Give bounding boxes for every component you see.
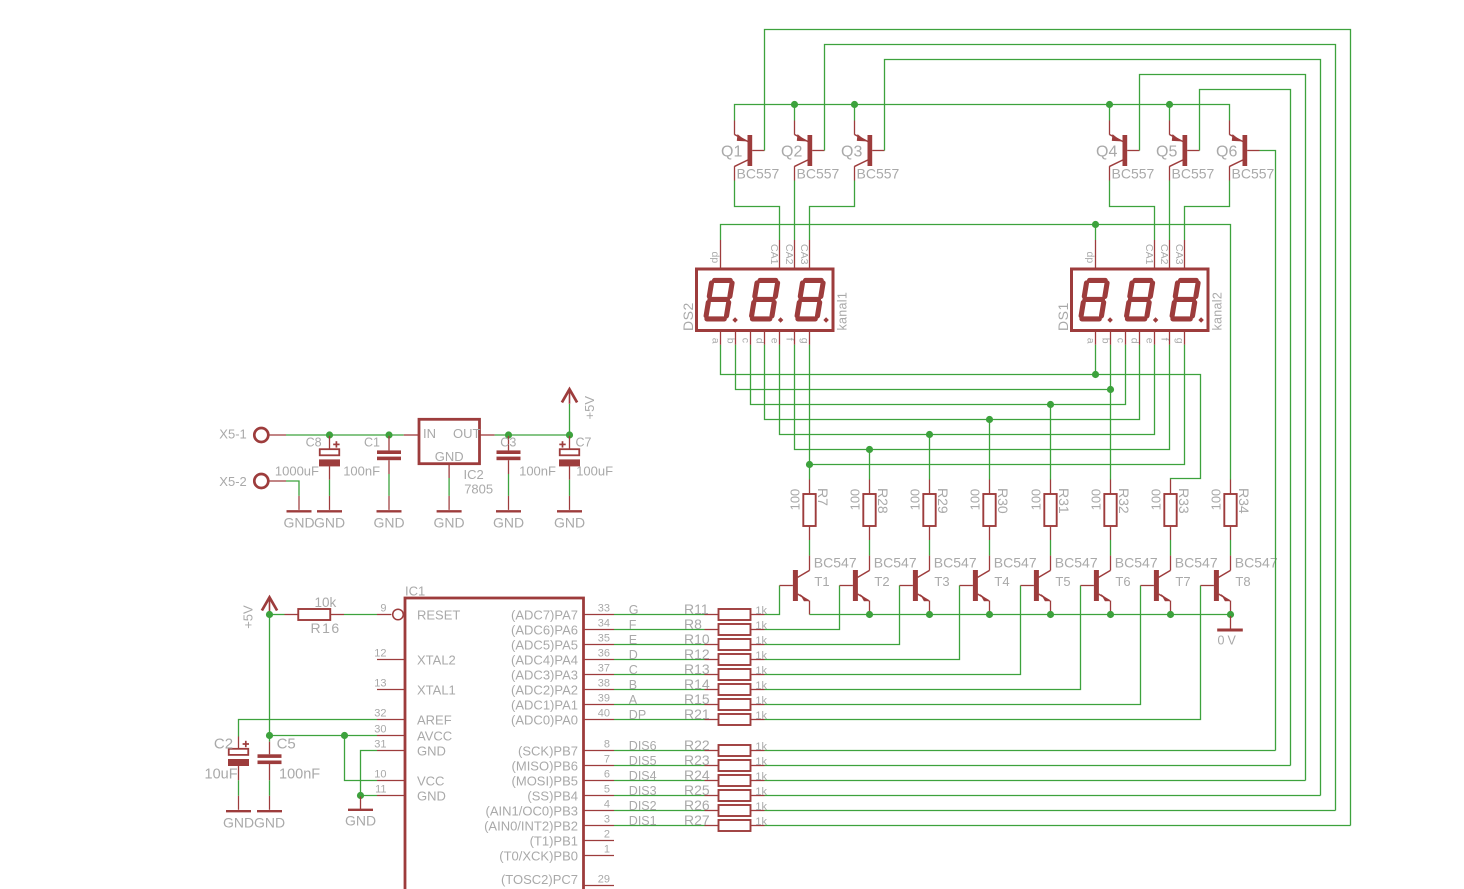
wire Q2 base to DIS2 vertical [825,45,1336,811]
svg-text:(MISO)PB6: (MISO)PB6 [512,759,578,774]
wire net e drop to resistor [929,435,931,480]
ground under IC1 GND pins [345,797,376,829]
resistor R14 1k [684,676,768,695]
svg-text:e: e [1144,338,1156,344]
junction Q emitter on +5V rail [791,101,798,108]
pin 36 (ADC4)PA4 [511,648,614,668]
svg-text:6: 6 [604,769,610,781]
svg-text:F: F [629,618,637,632]
svg-text:(ADC0)PA0: (ADC0)PA0 [511,713,578,728]
junction net dp at DS1 [1092,221,1099,228]
resistor R22 1k [684,737,768,756]
svg-text:R8: R8 [684,616,702,632]
pin 12 XTAL2 [374,648,456,668]
junction T2 emitter [866,611,873,618]
transistor T7 BC547 [1141,555,1218,615]
svg-text:RESET: RESET [417,608,460,623]
pin 37 (ADC3)PA3 [511,663,614,683]
pin 30 AVCC [374,724,452,744]
svg-text:Q5: Q5 [1156,144,1177,161]
svg-text:+5V: +5V [240,605,255,629]
svg-text:1k: 1k [755,801,767,813]
svg-text:R10: R10 [684,631,710,647]
+5V supply symbol near R16 [240,597,277,629]
resistor R8 1k [684,616,768,635]
DS1 pin f [1159,331,1171,345]
junction GND pin 11 [357,792,364,799]
+5V supply symbol at regulator output [562,389,597,419]
svg-text:100nF: 100nF [279,766,320,782]
wire +5V to RESET node [269,612,271,615]
ground under X5-2 [283,496,314,531]
svg-text:R33: R33 [1176,488,1192,514]
svg-text:dp: dp [1084,252,1096,264]
transistor Q1 BC557 [721,121,780,182]
wire DIS5 row [765,765,1291,767]
junction net g [806,461,813,468]
DS2 pin dp [709,240,721,269]
svg-text:(TOSC2)PC7: (TOSC2)PC7 [501,872,578,887]
svg-text:b: b [1100,338,1112,344]
resistor R10 1k [684,631,768,650]
svg-text:R26: R26 [684,797,710,813]
svg-text:Q2: Q2 [781,144,802,161]
wire net e: DS2-e to DS1-e [780,345,1155,435]
svg-text:C7: C7 [576,436,592,450]
resistor R33 100 [1148,480,1192,541]
svg-text:12: 12 [374,648,386,660]
svg-text:35: 35 [598,633,610,645]
0V supply symbol [1217,616,1243,648]
wire D to T4 base [765,586,960,660]
resistor R7 100 [787,480,831,541]
connector X5-2 [219,474,286,489]
resistor R34 100 [1208,480,1252,541]
transistor T6 BC547 [1081,555,1158,615]
svg-text:R30: R30 [995,488,1011,514]
capacitor C2 10uF [205,736,250,796]
svg-text:R29: R29 [935,488,951,514]
junction net f [866,446,873,453]
wire E from IC1 to R10 [614,644,705,646]
svg-text:DP: DP [629,708,646,722]
svg-text:DIS4: DIS4 [629,769,657,783]
svg-text:BC557: BC557 [1112,166,1155,182]
svg-text:BC547: BC547 [1055,555,1098,571]
DS1 pin c [1115,331,1127,345]
svg-text:30: 30 [374,724,386,736]
svg-text:100: 100 [787,489,802,511]
+5V rail across Q emitters [735,105,1230,121]
svg-text:dp: dp [709,252,721,264]
DS2 pin f [784,331,796,345]
svg-text:(ADC3)PA3: (ADC3)PA3 [511,668,578,683]
svg-text:10: 10 [374,769,386,781]
svg-text:GND: GND [434,514,465,530]
wire GND pin 11 [361,795,378,797]
wire Q emitter drop [854,105,856,121]
wire R29 to T3 collector [929,540,931,556]
DS2 pin d [754,331,766,345]
svg-text:a: a [1085,338,1097,344]
svg-text:d: d [1129,338,1141,344]
svg-text:D: D [629,648,638,662]
svg-text:IC2: IC2 [464,467,484,482]
wire Q3 collector to DS2 CA3 [810,181,855,241]
DS2 pin a [710,331,722,345]
wire Q4 base to DIS4 vertical [1140,75,1306,781]
junction net b at DS1-b [1107,386,1114,393]
resistor R27 1k [684,812,768,831]
svg-text:100: 100 [847,489,862,511]
resistor R32 100 [1088,480,1132,541]
junction VCC branch [341,732,348,739]
svg-text:GND: GND [223,814,254,830]
wire to +5V arrow [569,404,571,435]
wire B to T6 base [765,586,1081,690]
pin 38 (ADC2)PA2 [511,678,614,698]
svg-text:DIS2: DIS2 [629,799,657,813]
emitter rail to 0V [810,614,1231,616]
svg-text:34: 34 [598,618,610,630]
wire C to T5 base [765,586,1021,675]
wire net b: DS2-b to row [736,345,1111,390]
wire IC2 OUT to +5V [495,434,570,436]
junction C3 [505,431,512,438]
svg-text:T5: T5 [1055,574,1070,589]
svg-text:B: B [629,678,637,692]
svg-text:BC547: BC547 [1235,555,1278,571]
junction T8 emitter [1227,611,1234,618]
svg-text:DIS3: DIS3 [629,784,657,798]
svg-text:100nF: 100nF [343,464,380,479]
svg-text:7: 7 [604,754,610,766]
wire Q1 collector to DS2 CA1 [735,181,780,241]
svg-text:OUT: OUT [453,426,481,441]
wire net g: DS2-g straight down to R7 [809,345,811,480]
svg-text:f: f [1159,338,1171,341]
svg-text:1k: 1k [755,816,767,828]
ground under C5 [254,796,285,831]
pin 29 (TOSC2)PC7 [501,872,614,887]
wire GND pin 31 [361,751,378,796]
svg-text:BC547: BC547 [994,555,1037,571]
wire R30 to T4 collector [989,540,991,556]
pin 9 RESET with bubble [377,603,460,623]
svg-text:R14: R14 [684,676,710,692]
wire net d drop to resistor [989,420,991,480]
svg-text:X5-1: X5-1 [219,427,246,442]
svg-text:C8: C8 [306,436,322,450]
transistor Q4 BC557 [1096,121,1155,182]
ground under C8 [314,496,345,531]
svg-text:R27: R27 [684,812,710,828]
svg-text:CA1: CA1 [768,244,780,265]
svg-text:IN: IN [423,426,436,441]
resistor R28 100 [847,480,891,541]
svg-text:100: 100 [1208,489,1223,511]
wire VCC branch [345,736,378,781]
svg-text:C: C [629,663,638,677]
wire net a: DS2-a to row, detour to R33 [721,345,1201,480]
svg-text:C3: C3 [500,436,516,450]
svg-text:11: 11 [375,784,386,796]
svg-text:R11: R11 [684,601,709,617]
svg-text:(ADC1)PA1: (ADC1)PA1 [511,698,578,713]
svg-text:DIS5: DIS5 [629,754,657,768]
svg-text:kanal2: kanal2 [1210,292,1224,331]
DS1 digit 2 [1127,280,1153,319]
junction net d [986,416,993,423]
DS1 pin CA2 [1158,240,1170,269]
DS2 pin e [769,331,781,345]
transistor T5 BC547 [1021,555,1098,615]
svg-text:CA2: CA2 [1158,244,1170,265]
wire DIS2 row [765,810,1336,812]
wire R32 to T6 collector [1110,540,1112,556]
svg-text:39: 39 [598,693,610,705]
svg-text:0V: 0V [1218,634,1239,648]
svg-text:1k: 1k [755,635,767,647]
display DS2 box [680,269,850,331]
svg-text:(ADC6)PA6: (ADC6)PA6 [511,623,578,638]
svg-text:G: G [629,603,639,617]
junction C7 [566,431,573,438]
DS2 pin CA3 [798,240,810,269]
pin 34 (ADC6)PA6 [511,618,614,638]
wire R16 to RESET pin [344,614,377,616]
svg-text:29: 29 [598,874,610,886]
svg-text:b: b [725,338,737,344]
junction Q emitter on +5V rail [1166,101,1173,108]
svg-text:DS2: DS2 [680,302,696,331]
wire net c drop to resistor [1050,405,1052,480]
svg-text:1k: 1k [755,665,767,677]
pin 31 GND [374,739,446,759]
svg-text:1k: 1k [755,650,767,662]
svg-text:BC557: BC557 [857,166,900,182]
wire net f: DS2-f to DS1-f [795,345,1170,450]
svg-text:32: 32 [374,708,386,720]
svg-text:GND: GND [417,744,446,759]
svg-text:GND: GND [554,514,585,530]
wire net g row to DS1-g [810,345,1185,465]
svg-text:Q3: Q3 [841,144,862,161]
svg-text:GND: GND [417,789,446,804]
resistor R11 1k [684,601,768,620]
resistor R24 1k [684,767,768,786]
capacitor C7 100uF [559,436,613,496]
wire Q1 base to DIS1 vertical [765,30,1351,826]
svg-text:100nF: 100nF [519,464,556,479]
wire C from IC1 to R13 [614,674,705,676]
pin 10 VCC [374,769,444,789]
wire Q6 base to DIS6 vertical [1260,151,1276,751]
wire DP to T8 base [765,586,1201,720]
svg-text:31: 31 [374,739,386,751]
transistor T1 BC547 [780,555,857,615]
svg-text:R34: R34 [1236,488,1252,514]
DS2 pin g [799,331,811,345]
svg-text:A: A [629,693,638,707]
DS2 digit 1 [706,280,732,319]
svg-text:4: 4 [604,799,610,811]
svg-text:IC1: IC1 [405,584,425,599]
svg-text:1k: 1k [755,771,767,783]
DS1 pin CA3 [1173,240,1185,269]
DS1 pin b [1100,331,1112,345]
svg-text:40: 40 [598,708,610,720]
resistor R12 1k [684,646,768,665]
svg-text:Q4: Q4 [1096,144,1117,161]
svg-text:AREF: AREF [417,713,452,728]
wire DIS3 row [765,795,1321,797]
junction T3 emitter [926,611,933,618]
DS1 digit 1 [1081,280,1107,319]
resistor R25 1k [684,782,768,801]
svg-text:BC557: BC557 [797,166,840,182]
svg-text:R31: R31 [1056,488,1072,514]
svg-text:100: 100 [967,489,982,511]
svg-text:1k: 1k [755,605,767,617]
transistor T4 BC547 [960,555,1037,615]
junction net e [926,431,933,438]
svg-text:R24: R24 [684,767,710,783]
wire Q2 collector to DS2 CA2 [794,181,796,241]
wire G from IC1 to R11 [614,614,705,616]
junction net a at DS1-a [1092,371,1099,378]
svg-text:R32: R32 [1116,488,1132,514]
svg-text:2: 2 [604,829,610,841]
svg-text:R28: R28 [875,488,891,514]
resistor R15 1k [684,691,768,710]
svg-text:3: 3 [604,814,610,826]
resistor R23 1k [684,752,768,771]
svg-text:E: E [629,633,637,647]
resistor R16 10k [270,595,345,636]
wire net a: DS1-a drop [1095,345,1097,375]
svg-text:GND: GND [435,449,464,464]
resistor R29 100 [907,480,951,541]
wire G to T1 base [765,586,780,615]
svg-text:T1: T1 [814,574,829,589]
wire Q6 collector to DS1 CA3 [1185,181,1230,241]
DS1 digit 3 [1172,280,1198,319]
junction Q emitter on +5V rail [1106,101,1113,108]
DS2 pin CA1 [768,240,780,269]
svg-text:CA3: CA3 [1173,244,1185,265]
svg-text:c: c [740,338,752,343]
svg-text:R25: R25 [684,782,710,798]
wire DIS6 from IC1 to R22 [614,750,705,752]
svg-text:T8: T8 [1235,574,1250,589]
svg-text:e: e [769,338,781,344]
wire net dp rail to R34 [721,225,1231,480]
wire DIS6 row [765,750,1276,752]
svg-text:R23: R23 [684,752,710,768]
svg-text:C1: C1 [364,436,380,450]
ground under C7 [554,496,585,531]
IC1 microcontroller box [405,584,584,889]
wire D from IC1 to R12 [614,659,705,661]
wire R33 to T7 collector [1170,540,1172,556]
wire DIS3 from IC1 to R25 [614,795,705,797]
svg-text:1k: 1k [755,756,767,768]
DS2 digit 3 [797,280,823,319]
pin 6 (MOSI)PB5 [512,769,614,789]
svg-text:(T0/XCK)PB0: (T0/XCK)PB0 [499,849,578,864]
wire net b: DS1-b through to R32 [1110,345,1112,480]
pin 7 (MISO)PB6 [512,754,614,774]
DS2 pin CA2 [783,240,795,269]
wire DIS4 row [765,780,1306,782]
svg-text:BC557: BC557 [1172,166,1215,182]
wire net dp DS1 drop [1095,225,1097,241]
wire Q4 collector to DS1 CA1 [1110,181,1155,241]
DS1 pin e [1144,331,1156,345]
wire DIS1 row [765,825,1351,827]
wire X5-1 to IC2 IN [286,434,404,436]
pin 39 (ADC1)PA1 [511,693,614,713]
svg-text:(SS)PB4: (SS)PB4 [527,789,578,804]
DS1 pin a [1085,331,1097,345]
svg-text:g: g [1174,338,1186,344]
svg-text:10uF: 10uF [205,766,238,782]
svg-text:T3: T3 [934,574,949,589]
wire AVCC row [270,735,378,737]
svg-text:(T1)PB1: (T1)PB1 [530,834,578,849]
wire A from IC1 to R15 [614,704,705,706]
svg-text:BC547: BC547 [1115,555,1158,571]
junction C1 [385,431,392,438]
svg-text:13: 13 [374,678,386,690]
svg-text:Q6: Q6 [1216,144,1237,161]
svg-text:R15: R15 [684,691,710,707]
capacitor C5 100nF [258,736,321,796]
svg-text:100uF: 100uF [576,464,613,479]
svg-text:10k: 10k [315,595,337,610]
junction T6 emitter [1107,611,1114,618]
svg-text:f: f [784,338,796,341]
svg-text:(AIN1/OC0)PB3: (AIN1/OC0)PB3 [486,804,578,819]
svg-text:DIS1: DIS1 [629,814,657,828]
svg-text:37: 37 [598,663,610,675]
svg-text:(ADC4)PA4: (ADC4)PA4 [511,653,578,668]
svg-text:kanal1: kanal1 [835,292,849,331]
resistor R30 100 [967,480,1011,541]
svg-text:8: 8 [604,739,610,751]
svg-text:BC557: BC557 [1232,166,1275,182]
wire DIS5 from IC1 to R23 [614,765,705,767]
svg-text:36: 36 [598,648,610,660]
svg-text:1k: 1k [755,695,767,707]
transistor T8 BC547 [1201,555,1278,615]
transistor T2 BC547 [840,555,917,615]
wire Q3 base to DIS3 vertical [885,60,1321,796]
wire E to T3 base [765,586,900,645]
pin 3 (AIN0/INT2)PB2 [484,814,614,834]
svg-text:DS1: DS1 [1055,302,1071,331]
DS1 pin CA1 [1143,240,1155,269]
pin 13 XTAL1 [374,678,456,698]
wire net f drop to resistor [869,450,871,480]
wire A to T7 base [765,586,1141,705]
pin 40 (ADC0)PA0 [511,708,614,728]
wire F to T2 base [765,586,840,630]
wire Q5 base to DIS5 vertical [1200,90,1291,766]
transistor Q5 BC557 [1156,121,1215,182]
svg-text:1k: 1k [755,680,767,692]
